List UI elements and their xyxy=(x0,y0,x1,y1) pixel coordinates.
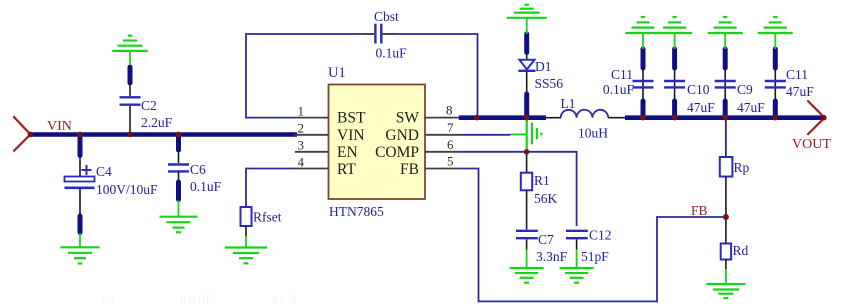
svg-text:COMP: COMP xyxy=(375,144,419,161)
ground (below Rfset) xyxy=(225,236,267,263)
ground (above C9, inverted) xyxy=(708,17,743,49)
svg-text:3: 3 xyxy=(298,138,305,153)
wire SW bus (pin 8 to inductor) xyxy=(459,115,546,120)
ground (below C12) xyxy=(560,250,594,283)
svg-text:Rfset: Rfset xyxy=(253,210,282,225)
svg-text:SS56: SS56 xyxy=(535,76,564,91)
svg-text:6: 6 xyxy=(447,137,454,152)
port VIN (input connector arrow) xyxy=(13,116,30,151)
svg-text:Rd: Rd xyxy=(733,243,749,258)
svg-text:51pF: 51pF xyxy=(581,249,609,264)
pin 3 EN stub xyxy=(295,138,329,153)
svg-text:VIN: VIN xyxy=(337,127,365,144)
svg-text:47uF: 47uF xyxy=(687,100,715,115)
ground (above D1, inverted) xyxy=(507,5,547,34)
pin 6 COMP stub xyxy=(425,137,460,152)
ground (below C4) xyxy=(61,234,100,264)
ground (above C10, inverted) xyxy=(657,17,692,49)
svg-text:47uF: 47uF xyxy=(737,100,765,115)
ground (below C6) xyxy=(160,201,198,233)
inductor L1 xyxy=(546,110,625,118)
pin 4 RT stub xyxy=(294,154,329,169)
svg-text:C2: C2 xyxy=(141,98,157,113)
port VOUT (output connector arrow) xyxy=(807,100,824,134)
junction at VOUT port xyxy=(821,115,827,121)
capacitor C12 xyxy=(566,231,588,250)
svg-text:3.3nF: 3.3nF xyxy=(536,249,568,264)
svg-text:SW: SW xyxy=(396,110,420,127)
pin 8 SW stub xyxy=(425,103,460,118)
faint watermark remnants at bottom xyxy=(102,292,296,304)
junction C6 / VIN bus xyxy=(176,132,182,138)
svg-text:C4: C4 xyxy=(96,164,112,179)
svg-text:0.1uF: 0.1uF xyxy=(376,46,408,61)
svg-text:U1: U1 xyxy=(328,65,346,81)
junction C11a / VOUT bus xyxy=(640,115,646,121)
junction R1 / COMP wire xyxy=(524,149,530,155)
ground (above C11b, inverted) xyxy=(758,17,793,49)
svg-text:L1: L1 xyxy=(561,96,576,111)
capacitor C11 (0.1uF output) xyxy=(633,49,654,116)
junction Cbst / SW bus xyxy=(474,115,480,121)
capacitor C10 xyxy=(664,49,685,116)
svg-text:FB: FB xyxy=(691,203,708,218)
pin 5 FB stub xyxy=(425,154,460,169)
capacitor Cbst xyxy=(362,24,395,44)
svg-text:4: 4 xyxy=(298,154,305,169)
junction C2 / VIN bus xyxy=(127,132,133,138)
ground (above C2, inverted) xyxy=(112,36,147,65)
wire Rp from VOUT bus down xyxy=(725,119,727,157)
svg-text:8: 8 xyxy=(446,103,453,118)
svg-text:EN: EN xyxy=(337,144,358,161)
ground (below C7) xyxy=(510,250,544,283)
capacitor C4 (electrolytic) xyxy=(65,136,95,234)
wire pin 4 to Rfset xyxy=(246,169,294,208)
capacitor C11 (47uF output) xyxy=(765,49,786,116)
svg-text:C11: C11 xyxy=(786,67,808,82)
capacitor C7 xyxy=(516,231,538,250)
svg-text:2: 2 xyxy=(298,121,305,136)
svg-text:56K: 56K xyxy=(534,191,558,206)
junction at VIN port xyxy=(28,132,34,138)
svg-text:C7: C7 xyxy=(538,232,554,247)
svg-text:C12: C12 xyxy=(589,228,612,243)
ground (below Rd) xyxy=(706,269,745,298)
resistor Rp xyxy=(720,157,733,217)
svg-text:D1: D1 xyxy=(535,59,552,74)
IC U1 body xyxy=(329,85,426,200)
junction FB node xyxy=(723,214,729,220)
pin 1 BST stub xyxy=(294,104,329,119)
resistor R1 xyxy=(521,152,532,230)
svg-text:Rp: Rp xyxy=(734,160,750,175)
svg-text:i. t: i. t xyxy=(102,292,115,304)
svg-text:C6: C6 xyxy=(190,162,206,177)
svg-text:a t. d: a t. d xyxy=(272,292,296,304)
junction D1 / SW bus xyxy=(524,115,530,121)
svg-text:C9: C9 xyxy=(737,82,753,97)
junction C11b / VOUT bus xyxy=(773,115,779,121)
net label VIN xyxy=(47,119,72,134)
svg-text:C11: C11 xyxy=(611,67,633,82)
svg-text:VIN: VIN xyxy=(47,119,72,134)
wire COMP net (pin 6 to C12 corner) xyxy=(460,152,577,226)
ground at GND pin (rotated sideways) xyxy=(510,117,541,150)
svg-text:7: 7 xyxy=(447,120,454,135)
svg-text:R1: R1 xyxy=(534,173,550,188)
svg-text:2.2uF: 2.2uF xyxy=(141,115,173,130)
diode D1 (Schottky) xyxy=(518,34,535,116)
wire FB net: pin 5 route down and around to FB node xyxy=(460,169,723,302)
svg-text:10uH: 10uH xyxy=(578,126,608,141)
svg-text:5: 5 xyxy=(447,154,454,169)
capacitor C2 xyxy=(120,67,141,133)
svg-text:Cbst: Cbst xyxy=(374,9,399,24)
svg-text:n u rff: n u rff xyxy=(180,292,210,304)
svg-text:0.1uF: 0.1uF xyxy=(603,82,635,97)
wire VOUT bus (inductor to VOUT port) xyxy=(625,115,824,120)
capacitor C9 xyxy=(715,49,736,116)
svg-text:47uF: 47uF xyxy=(786,84,814,99)
pin 2 VIN stub xyxy=(294,121,329,136)
wire GND pin 7 to ground xyxy=(460,134,510,136)
pin 7 GND stub xyxy=(425,120,460,135)
junction C9 / VOUT bus xyxy=(722,115,728,121)
svg-text:BST: BST xyxy=(337,110,366,127)
svg-text:1: 1 xyxy=(298,104,305,119)
resistor Rfset xyxy=(241,207,252,236)
junction C4 / VIN bus xyxy=(77,132,83,138)
wire Cbst loop right leg down to SW bus xyxy=(395,34,478,116)
ground (above C11a, inverted) xyxy=(626,17,661,49)
capacitor C6 xyxy=(168,136,189,201)
svg-text:HTN7865: HTN7865 xyxy=(329,204,384,219)
wire pin1 to Cbst loop (left leg and top) xyxy=(246,34,362,118)
wire VIN input bus xyxy=(30,132,297,137)
junction C10 / VOUT bus xyxy=(672,115,678,121)
svg-text:0.1uF: 0.1uF xyxy=(190,179,222,194)
resistor Rd xyxy=(721,217,731,269)
svg-text:RT: RT xyxy=(337,161,356,178)
svg-text:GND: GND xyxy=(385,127,419,144)
svg-text:C10: C10 xyxy=(687,82,710,97)
svg-text:FB: FB xyxy=(400,161,419,178)
svg-text:100V/10uF: 100V/10uF xyxy=(96,182,158,197)
svg-text:VOUT: VOUT xyxy=(792,137,831,152)
